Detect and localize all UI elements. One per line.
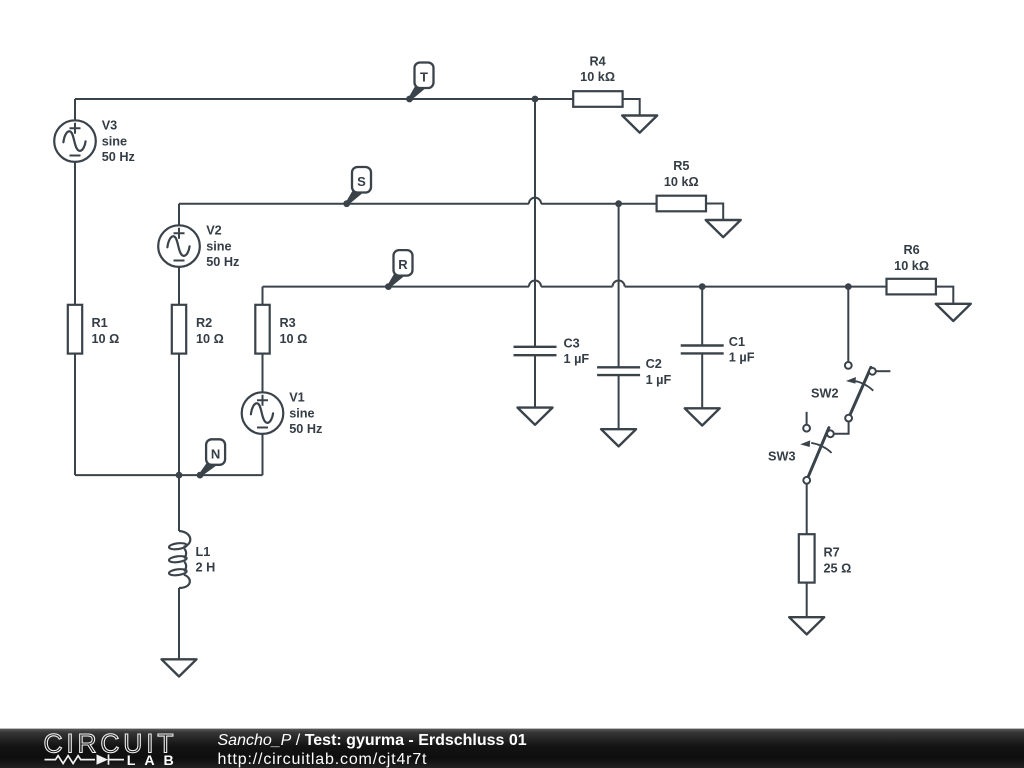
wire N to L1: [178, 475, 180, 531]
svg-text:10 kΩ: 10 kΩ: [664, 175, 699, 189]
svg-text:C3: C3: [564, 337, 580, 351]
switch SW2: [811, 362, 890, 422]
ground for C1: [685, 408, 720, 425]
svg-text:10 kΩ: 10 kΩ: [580, 70, 615, 84]
capacitor C3 vertical lead: [534, 99, 536, 408]
wire R7 to ground: [806, 583, 808, 618]
wire S net continues to R5: [541, 203, 657, 205]
node R flag: [387, 274, 406, 288]
capacitor C1 vertical lead: [701, 287, 703, 409]
svg-text:2 H: 2 H: [196, 561, 216, 575]
wire V2 to R2: [178, 267, 180, 305]
capacitor C1: [681, 346, 724, 354]
voltage source V3: [54, 120, 96, 162]
wire hop over C3 column on S net: [529, 198, 541, 204]
svg-text:V3: V3: [102, 119, 118, 133]
capacitor C3: [514, 347, 557, 355]
wire net T horizontal top: [75, 99, 573, 120]
wire SW3 common to R7: [806, 484, 808, 534]
ground for C3: [518, 408, 553, 425]
svg-text:50 Hz: 50 Hz: [206, 255, 239, 269]
node N flag: [199, 463, 219, 476]
wire R net down to SW2: [847, 287, 849, 362]
node T junction dot at C3 column: [532, 96, 539, 103]
resistor R2: [172, 305, 186, 354]
node N junction dot at L1: [176, 472, 183, 479]
ground for R6: [936, 304, 971, 321]
wire hop over C3 column on R net: [529, 281, 541, 287]
wire L1 to ground: [178, 588, 180, 659]
resistor R7: [799, 534, 815, 582]
svg-text:1 µF: 1 µF: [564, 352, 590, 366]
wire R net continues to R6: [625, 286, 887, 288]
wire R3 to V1: [262, 354, 264, 393]
svg-text:R1: R1: [92, 316, 108, 330]
ground for R7: [789, 617, 824, 634]
svg-text:T: T: [420, 70, 428, 85]
node S flag: [345, 191, 364, 205]
svg-text:R3: R3: [280, 316, 296, 330]
wire V3 to R1: [74, 162, 76, 305]
node T flag: [408, 86, 426, 100]
wire R4 right lead to ground: [622, 99, 640, 116]
svg-text:sine: sine: [102, 134, 127, 148]
svg-text:V2: V2: [206, 224, 222, 238]
CircuitLab logo resistor-diode glyph: [45, 756, 96, 764]
svg-text:SW3: SW3: [768, 450, 796, 464]
resistor R4: [573, 91, 622, 107]
svg-text:50 Hz: 50 Hz: [289, 422, 322, 436]
inductor L1: [179, 531, 190, 588]
svg-text:25 Ω: 25 Ω: [824, 561, 852, 575]
node R junction dot at C1 column: [699, 283, 706, 290]
svg-text:R6: R6: [903, 243, 919, 257]
svg-text:Sancho_P / Test: gyurma - Erds: Sancho_P / Test: gyurma - Erdschluss 01: [218, 732, 527, 749]
svg-text:50 Hz: 50 Hz: [102, 150, 135, 164]
ground for R4: [622, 116, 657, 133]
svg-text:R: R: [398, 257, 408, 272]
voltage source V1: [242, 392, 284, 434]
ground for R5: [706, 220, 741, 237]
svg-text:R7: R7: [824, 546, 840, 560]
svg-text:R5: R5: [673, 159, 689, 173]
wire SW2 common to SW3: [834, 422, 849, 434]
svg-text:S: S: [357, 174, 366, 189]
wire R2 to N net: [178, 354, 180, 476]
svg-text:SW2: SW2: [811, 386, 839, 400]
resistor R1: [68, 305, 82, 354]
wire R1 to N net: [74, 354, 76, 476]
wire R net between hops: [541, 286, 612, 288]
node R junction dot at SW2 column: [845, 283, 852, 290]
node S junction dot at C2 column: [615, 200, 622, 207]
footer bar: [0, 729, 1024, 768]
switch SW3: [768, 412, 834, 484]
svg-text:1 µF: 1 µF: [729, 351, 755, 365]
svg-text:LAB: LAB: [127, 753, 174, 768]
resistor R6: [887, 279, 936, 295]
svg-text:C2: C2: [646, 357, 662, 371]
wire net N horizontal bottom: [75, 474, 263, 476]
wire V1 to N net: [262, 434, 264, 475]
svg-text:C1: C1: [729, 335, 745, 349]
svg-text:1 µF: 1 µF: [646, 373, 672, 387]
wire R6 right lead to ground: [936, 287, 953, 304]
capacitor C2: [597, 367, 640, 375]
svg-text:sine: sine: [206, 239, 231, 253]
svg-text:10 Ω: 10 Ω: [280, 332, 308, 346]
svg-text:10 Ω: 10 Ω: [92, 332, 120, 346]
svg-text:sine: sine: [289, 406, 314, 420]
ground for L1: [162, 659, 197, 676]
svg-text:L1: L1: [196, 545, 211, 559]
svg-text:10 Ω: 10 Ω: [196, 332, 224, 346]
resistor R5: [657, 196, 706, 212]
svg-text:10 kΩ: 10 kΩ: [894, 259, 929, 273]
wire R5 right lead to ground: [706, 204, 723, 221]
svg-text:V1: V1: [289, 391, 305, 405]
wire net S horizontal: [179, 204, 529, 226]
wire net R horizontal: [263, 287, 529, 305]
svg-text:N: N: [211, 446, 220, 461]
svg-text:http://circuitlab.com/cjt4r7t: http://circuitlab.com/cjt4r7t: [218, 751, 428, 768]
wire hop over C2 column on R net: [613, 281, 625, 287]
capacitor C2 vertical lead: [618, 204, 620, 430]
ground for C2: [601, 429, 636, 446]
resistor R3: [255, 305, 269, 354]
svg-text:R2: R2: [196, 316, 212, 330]
svg-text:R4: R4: [589, 55, 605, 69]
voltage source V2: [158, 225, 200, 267]
